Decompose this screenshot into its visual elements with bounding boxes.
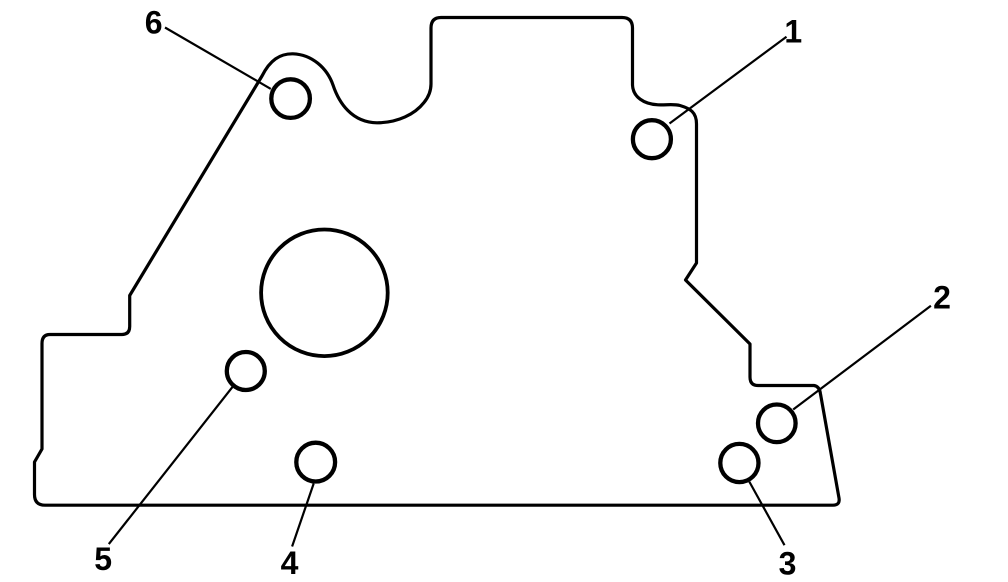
- bolt hole 3: [720, 444, 758, 482]
- leader line 2: [793, 306, 931, 410]
- leader line 1: [670, 37, 787, 124]
- leader line 6: [165, 28, 271, 89]
- svg-text:6: 6: [145, 5, 163, 41]
- leader line 4: [292, 484, 314, 547]
- svg-text:5: 5: [94, 541, 112, 577]
- bolt hole 2: [758, 405, 796, 443]
- bolt hole 4: [296, 443, 335, 482]
- front cover outline: [35, 18, 840, 506]
- bolt hole 1: [633, 120, 671, 158]
- leader line 5: [109, 387, 233, 544]
- bolt hole 6: [271, 79, 310, 118]
- svg-text:2: 2: [933, 279, 951, 315]
- svg-text:3: 3: [779, 545, 797, 581]
- leader line 3: [749, 482, 784, 546]
- svg-text:4: 4: [281, 545, 299, 581]
- crankshaft bore (large center circle): [261, 229, 388, 356]
- bolt hole 5: [227, 352, 265, 390]
- svg-text:1: 1: [784, 13, 802, 49]
